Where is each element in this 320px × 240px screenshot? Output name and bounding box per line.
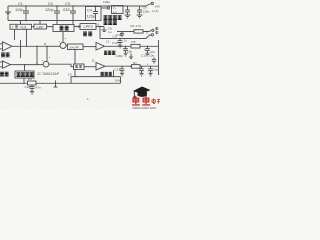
label phase blob x2 [83,32,87,36]
box LPF2 [80,24,96,30]
watermark dianzi small [152,99,160,104]
right netB cap1 + ground [120,66,125,76]
wire rail2 [8,6,86,21]
right netB cap3 + ground [148,66,153,76]
wire box3 drop to circle1 [62,32,64,43]
right netA resistor [131,44,140,48]
paper noise overlay [0,0,160,110]
watermark char chong2 [142,96,150,105]
right edge vertical [158,40,160,75]
capacitor C7 + ground [125,6,131,18]
bold label amp2 blob x2 [0,72,4,76]
op-amp B [96,63,105,71]
wire driver drop [75,70,114,77]
terminal det out [152,29,154,31]
terminal +B [151,34,153,36]
wire bottom rail short [71,77,121,84]
box limiter [53,25,74,32]
wire LPF2 out [96,27,104,39]
label out blob x2 small [155,27,158,30]
right netB cap2 + ground [139,66,144,76]
bold label ampB below blob x3 [101,72,104,76]
wire into circle1 [45,45,60,47]
capacitor C18 + ground [30,85,35,94]
wire circle1 to box [66,45,68,47]
label box muting blob x4 [17,72,21,76]
ground det [102,27,107,32]
right netB resistor [132,65,141,69]
wire box links [32,26,81,28]
wire amp1 out [12,46,45,64]
capacitor C13 on det wire [120,32,124,38]
component Tr box [112,6,124,14]
terminal antenna [107,7,109,9]
wire det out [117,30,151,31]
right netA cap2 + ground [145,46,150,56]
wire circle2 out [49,64,74,67]
capacitor C9 + ground on supply [118,39,123,49]
wire top rail [8,5,146,7]
capacitor C3 [70,6,76,21]
bold label ampA below blob x3 [104,51,107,55]
capacitor C2 [54,6,60,21]
wire bottom rail long [0,77,121,84]
bold label amp1 blob x2 [1,53,5,57]
wire drop to circle2 top [46,46,48,61]
bold block det row2 [104,20,108,24]
wire supply [100,35,151,39]
bold block det row1 [104,15,108,19]
right netA cap1 + ground [123,46,128,56]
wire S-box drop [74,50,76,65]
op-amp 1 left [0,42,12,51]
wire ampB out [105,65,159,67]
ground top-left [5,6,11,14]
watermark char chong1 [132,96,140,105]
node circle2 [43,61,49,67]
capacitor C1 [23,6,29,21]
capacitor C4 inside shield [93,7,98,21]
box muting [15,71,34,78]
stub ground mid [54,81,58,88]
box shield [86,7,102,21]
box LPF1 [34,24,47,29]
netB upper cap [152,58,156,64]
wire amp2 out [11,64,44,66]
wire S-box out [83,46,96,48]
wire ampA out [105,45,159,47]
wire muting drop [23,65,26,84]
box S-LPF [68,44,84,50]
wire rail2 ticks to boxes [21,21,74,25]
op-amp A [96,43,105,51]
op-amp 2 left [0,61,11,68]
wire box1 drops [15,29,27,58]
label limiter blob x2 [60,26,64,30]
resistor R9 [28,81,37,85]
junction dots [23,5,151,84]
box driver [74,64,85,70]
capacitor C8 + ground [137,6,143,18]
terminal +9V [146,4,151,6]
box f-block [10,24,32,29]
resistor R1 [134,30,143,33]
node circle1 [60,43,66,49]
watermark cap [133,87,151,99]
label driver box [75,65,78,68]
netB upper ground [129,54,133,59]
wire driver out [84,66,96,68]
